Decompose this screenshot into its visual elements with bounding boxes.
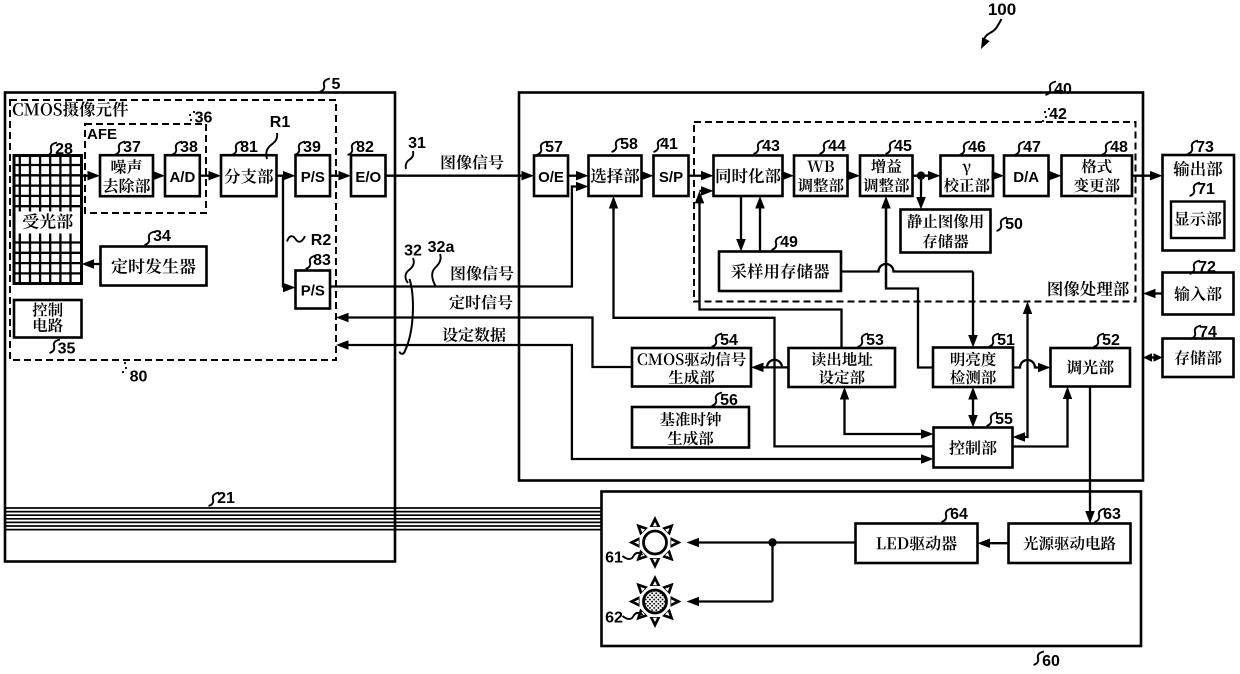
svg-text:32: 32 — [404, 242, 422, 259]
svg-text:83: 83 — [313, 252, 331, 269]
svg-text:47: 47 — [1023, 139, 1041, 156]
svg-text:D/A: D/A — [1013, 169, 1039, 186]
svg-text:A/D: A/D — [169, 169, 195, 186]
svg-text:O/E: O/E — [538, 169, 564, 186]
svg-text:55: 55 — [995, 411, 1013, 428]
svg-text:100: 100 — [988, 0, 1016, 19]
svg-text:81: 81 — [240, 139, 258, 156]
svg-text:P/S: P/S — [301, 169, 325, 186]
svg-text:39: 39 — [303, 139, 321, 156]
svg-text:32a: 32a — [428, 239, 455, 256]
svg-text:34: 34 — [153, 228, 171, 245]
svg-text:28: 28 — [55, 141, 73, 158]
svg-text:S/P: S/P — [659, 169, 683, 186]
svg-text:38: 38 — [180, 139, 198, 156]
svg-text:37: 37 — [123, 139, 141, 156]
svg-text:56: 56 — [720, 392, 738, 409]
svg-text:36: 36 — [195, 109, 213, 126]
svg-text:35: 35 — [58, 340, 76, 357]
svg-text:51: 51 — [997, 332, 1015, 349]
svg-text:5: 5 — [332, 76, 341, 93]
svg-text:48: 48 — [1110, 139, 1128, 156]
svg-text:61: 61 — [605, 549, 623, 566]
svg-text:74: 74 — [1199, 324, 1217, 341]
svg-text:31: 31 — [408, 135, 426, 152]
svg-text:43: 43 — [762, 138, 780, 155]
svg-text:73: 73 — [1196, 139, 1214, 156]
svg-text:E/O: E/O — [355, 169, 381, 186]
svg-text:52: 52 — [1102, 332, 1120, 349]
svg-text:50: 50 — [1005, 216, 1023, 233]
svg-text:62: 62 — [605, 609, 623, 626]
svg-text:80: 80 — [130, 368, 148, 385]
svg-text:45: 45 — [894, 138, 912, 155]
svg-text:42: 42 — [1049, 106, 1067, 123]
svg-text:44: 44 — [828, 138, 846, 155]
svg-text:P/S: P/S — [301, 282, 325, 299]
svg-text:R2: R2 — [311, 232, 332, 249]
svg-text:58: 58 — [620, 136, 638, 153]
svg-text:72: 72 — [1198, 259, 1216, 276]
svg-text:R1: R1 — [270, 114, 291, 131]
svg-text:46: 46 — [968, 139, 986, 156]
svg-text:40: 40 — [1054, 81, 1072, 98]
svg-text:21: 21 — [217, 490, 235, 507]
svg-text:49: 49 — [780, 234, 798, 251]
svg-text:64: 64 — [950, 506, 968, 523]
svg-text:53: 53 — [866, 332, 884, 349]
svg-text:63: 63 — [1103, 506, 1121, 523]
svg-text:82: 82 — [356, 139, 374, 156]
svg-text:60: 60 — [1042, 653, 1060, 669]
svg-text:54: 54 — [720, 332, 738, 349]
svg-text:AFE: AFE — [87, 126, 117, 143]
svg-text:57: 57 — [545, 139, 563, 156]
